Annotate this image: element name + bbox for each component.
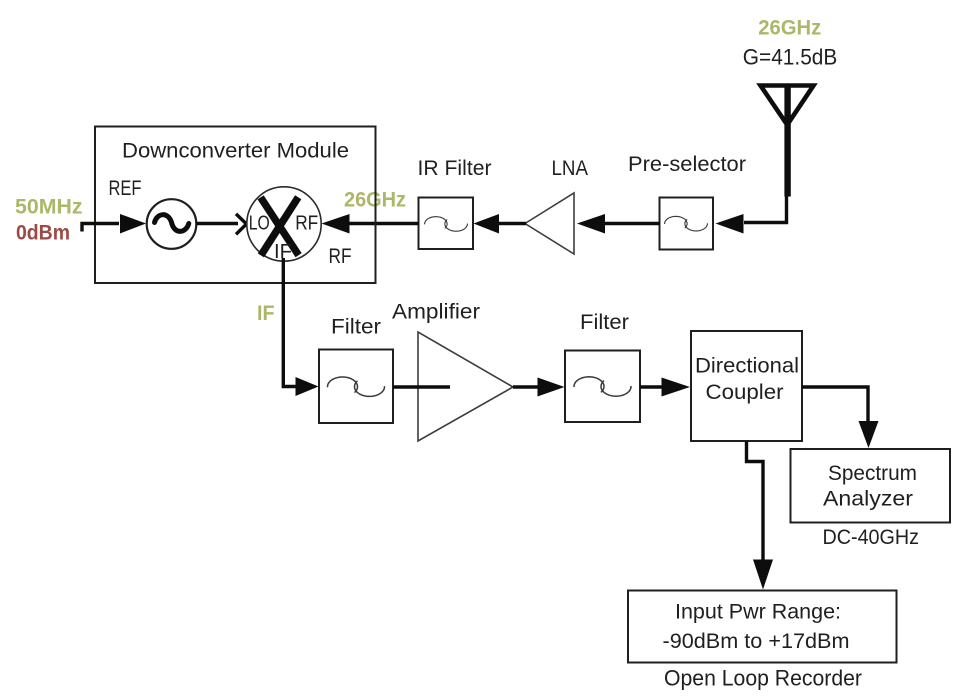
input power range box (open loop recorder) [628,591,897,663]
arrowhead into recorder [753,560,773,590]
arrowhead into pre-selector [716,214,744,234]
arrowhead into IR filter [474,214,500,234]
svg-text:Filter: Filter [580,311,629,334]
wire amplifier to filter2 [513,385,538,388]
arrowhead into filter2 [538,378,565,397]
svg-text:Open Loop Recorder: Open Loop Recorder [664,666,862,691]
svg-text:0dBm: 0dBm [16,222,70,245]
svg-text:Filter: Filter [331,316,381,339]
wire antenna feed down and left to pre-selector [744,194,787,223]
wire oscillator to mixer LO [196,222,238,225]
arrowhead into LNA [577,214,605,234]
svg-text:Coupler: Coupler [706,381,784,404]
IF filter box 2 [565,351,640,423]
svg-text:LO: LO [249,213,270,235]
antenna AN1 [761,85,814,197]
wire pre-selector to LNA [605,222,660,225]
spectrum analyzer box [791,449,951,523]
svg-text:DC-40GHz: DC-40GHz [823,526,920,549]
svg-text:Analyzer: Analyzer [823,488,913,511]
svg-text:26GHz: 26GHz [758,17,821,40]
svg-text:-90dBm to +17dBm: -90dBm to +17dBm [663,630,850,653]
wire REF input with start hook [82,224,119,232]
svg-text:Input Pwr Range:: Input Pwr Range: [675,601,841,624]
wire IR filter to mixer RF port [349,222,419,225]
IF filter box 1 [319,350,393,424]
arrowhead into IF filter [296,377,319,396]
svg-text:REF: REF [109,177,142,200]
wire filter1 to amplifier [393,385,450,388]
pre-selector bandpass filter box [660,198,714,250]
downconverter module box [95,127,376,284]
wire IF output down and right to filter [283,258,297,387]
oscillator (reference source) [147,199,197,249]
svg-text:50MHz: 50MHz [15,196,83,219]
svg-text:Pre-selector: Pre-selector [628,153,746,176]
open arrowhead at LO port [236,214,247,234]
svg-text:RF: RF [329,245,352,268]
arrowhead into spectrum analyzer [859,421,879,448]
wire coupler to spectrum analyzer [802,387,868,422]
mixer X [261,197,299,255]
svg-text:G=41.5dB: G=41.5dB [743,45,838,70]
wire filter2 to directional coupler [640,385,662,388]
wire coupler bottom to recorder (with jog) [747,442,764,561]
svg-text:Amplifier: Amplifier [392,301,480,324]
IR filter box [419,198,474,250]
svg-text:IF: IF [257,302,275,325]
IF amplifier triangle [418,332,513,441]
svg-text:Downconverter Module: Downconverter Module [122,140,349,163]
svg-text:RF: RF [295,213,318,235]
svg-text:IR Filter: IR Filter [418,157,492,180]
svg-text:Directional: Directional [695,355,799,378]
LNA amplifier triangle [525,193,574,254]
arrowhead into oscillator [120,214,146,234]
directional coupler box [691,331,802,441]
wire LNA to IR filter [499,222,526,225]
arrowhead into mixer RF [322,214,350,234]
mixer circle [247,187,321,261]
svg-text:Spectrum: Spectrum [828,462,917,485]
svg-text:LNA: LNA [552,157,589,180]
arrowhead into coupler [662,378,691,397]
